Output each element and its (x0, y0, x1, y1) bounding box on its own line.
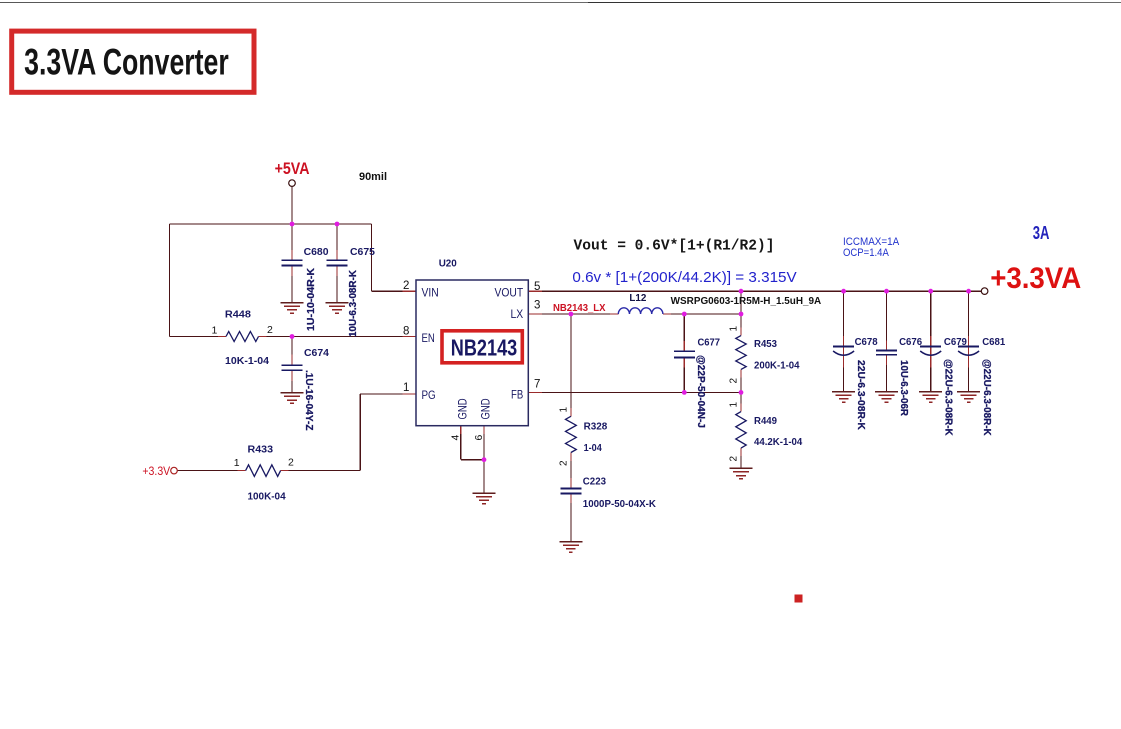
svg-text:C675: C675 (350, 247, 375, 258)
svg-text:OCP=1.4A: OCP=1.4A (843, 247, 889, 259)
svg-text:1: 1 (234, 457, 240, 469)
svg-text:R448: R448 (225, 310, 251, 321)
svg-text:10U-6.3-08R-K: 10U-6.3-08R-K (348, 269, 359, 337)
svg-text:5: 5 (534, 281, 540, 293)
svg-text:10K-1-04: 10K-1-04 (225, 356, 269, 367)
svg-text:C679: C679 (944, 337, 967, 348)
svg-text:.1U-16-04Y-Z: .1U-16-04Y-Z (303, 370, 314, 431)
svg-text:FB: FB (511, 390, 523, 402)
svg-text:1-04: 1-04 (584, 443, 603, 454)
svg-text:1000P-50-04X-K: 1000P-50-04X-K (583, 499, 657, 510)
svg-text:LX: LX (511, 309, 524, 321)
svg-text:2: 2 (558, 460, 569, 466)
svg-text:R453: R453 (754, 339, 777, 350)
svg-text:4: 4 (450, 435, 462, 441)
svg-text:1U-10-04R-K: 1U-10-04R-K (306, 267, 317, 331)
svg-text:C676: C676 (899, 337, 922, 348)
svg-text:GND: GND (458, 398, 470, 419)
svg-text:R449: R449 (754, 416, 777, 427)
svg-text:+5VA: +5VA (275, 160, 310, 178)
svg-text:C674: C674 (304, 348, 329, 359)
svg-text:WSRPG0603-1R5M-H_1.5uH_9A: WSRPG0603-1R5M-H_1.5uH_9A (671, 296, 822, 307)
svg-text:44.2K-1-04: 44.2K-1-04 (754, 437, 803, 448)
svg-text:L12: L12 (629, 292, 646, 304)
svg-text:100K-04: 100K-04 (248, 492, 287, 503)
svg-text:8: 8 (403, 326, 409, 338)
svg-text:U20: U20 (439, 259, 458, 270)
svg-text:3A: 3A (1033, 223, 1050, 243)
svg-text:1: 1 (212, 325, 218, 337)
svg-text:7: 7 (534, 378, 540, 390)
svg-text:2: 2 (403, 280, 409, 292)
svg-text:EN: EN (422, 333, 435, 345)
svg-text:10U-6.3-06R: 10U-6.3-06R (898, 360, 909, 417)
svg-text:C681: C681 (982, 337, 1005, 348)
svg-text:1: 1 (558, 407, 569, 413)
svg-text:R328: R328 (584, 422, 608, 433)
svg-text:VOUT: VOUT (495, 288, 524, 300)
svg-text:+3.3V: +3.3V (142, 466, 170, 478)
svg-text:1: 1 (403, 382, 409, 394)
svg-text:VIN: VIN (422, 288, 439, 300)
svg-text:R433: R433 (248, 445, 274, 456)
svg-text:90mil: 90mil (359, 171, 387, 183)
svg-text:1: 1 (729, 402, 740, 408)
svg-text:PG: PG (422, 390, 436, 402)
svg-text:@22U-6.3-08R-K: @22U-6.3-08R-K (943, 359, 954, 436)
svg-text:@22U-6.3-08R-K: @22U-6.3-08R-K (981, 359, 992, 436)
svg-text:C677: C677 (698, 338, 721, 349)
svg-text:GND: GND (481, 398, 493, 419)
svg-text:NB2143: NB2143 (451, 335, 517, 361)
svg-text:2: 2 (288, 457, 294, 469)
svg-text:C680: C680 (304, 247, 329, 258)
svg-text:1: 1 (729, 326, 740, 332)
svg-text:22U-6.3-08R-K: 22U-6.3-08R-K (855, 360, 866, 431)
svg-text:0.6v * [1+(200K/44.2K)] = 3.31: 0.6v * [1+(200K/44.2K)] = 3.315V (572, 269, 796, 286)
svg-text:+3.3VA: +3.3VA (990, 262, 1081, 295)
svg-text:C678: C678 (855, 337, 878, 348)
svg-text:C223: C223 (583, 477, 607, 488)
svg-text:3.3VA Converter: 3.3VA Converter (24, 41, 229, 82)
svg-text:@22P-50-04N-J: @22P-50-04N-J (695, 355, 706, 428)
svg-text:2: 2 (729, 456, 740, 462)
svg-text:2: 2 (729, 378, 740, 384)
svg-text:3: 3 (534, 300, 540, 312)
svg-text:NB2143_LX: NB2143_LX (553, 303, 606, 314)
svg-text:2: 2 (267, 324, 273, 336)
svg-text:6: 6 (473, 435, 485, 441)
svg-text:200K-1-04: 200K-1-04 (754, 361, 800, 372)
svg-text:Vout = 0.6V*[1+(R1/R2)]: Vout = 0.6V*[1+(R1/R2)] (574, 238, 775, 254)
